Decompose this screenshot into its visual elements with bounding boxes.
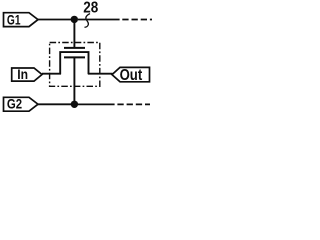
transistor Q1 gate bar (G1) <box>64 47 85 49</box>
transistor Q1 bulk bar (G2) <box>64 56 85 58</box>
wire bottom bus dashed continuation <box>117 103 150 105</box>
svg-text:Out: Out <box>120 67 143 84</box>
transistor Q1 channel <box>60 52 88 74</box>
terminal flag G1 <box>4 13 39 28</box>
background <box>0 0 152 120</box>
junction dot node 28 (top) <box>71 16 78 23</box>
wire bulk lead down to bottom node <box>73 58 75 102</box>
wire bottom bus solid <box>78 103 115 105</box>
junction dot (bottom) <box>71 101 78 108</box>
wire In lead (source) <box>42 73 61 75</box>
svg-text:G1: G1 <box>7 13 21 28</box>
terminal flag G2 <box>4 97 39 112</box>
wire Out lead (drain) <box>88 73 113 75</box>
wire gate lead from top dot down <box>73 22 75 48</box>
wire G1 to node 28 <box>38 19 72 21</box>
svg-text:G2: G2 <box>7 97 22 112</box>
enclosure dash-dot box <box>50 43 100 87</box>
wire top bus dashed continuation <box>122 19 153 21</box>
terminal flag Out <box>112 67 150 84</box>
svg-text:28: 28 <box>83 0 98 17</box>
terminal flag In <box>12 67 42 82</box>
leader squiggle for label 28 <box>85 14 91 28</box>
svg-text:In: In <box>17 67 28 82</box>
wire G2 to bottom node <box>38 103 72 105</box>
wire top bus solid <box>78 19 120 21</box>
